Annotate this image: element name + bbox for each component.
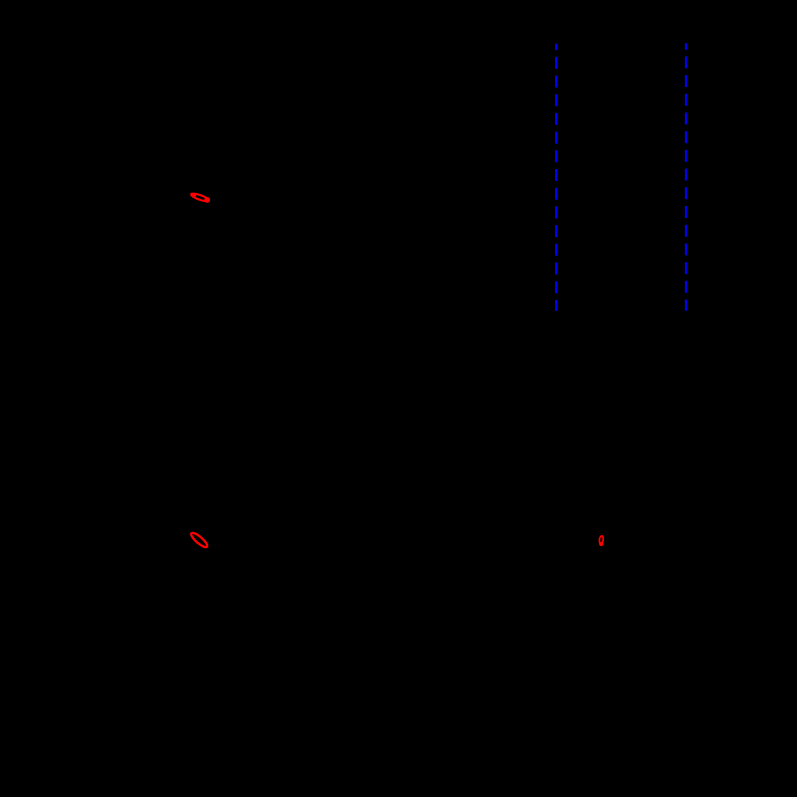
boundary dashed line (blue, right of transmission-line section) xyxy=(685,43,687,311)
boundary dashed line (blue, left of transmission-line section) xyxy=(555,44,557,311)
red highlight ellipse E2 (lower-left wire) xyxy=(189,531,209,549)
red highlight ellipse E3 (lower-middle wire) xyxy=(599,536,604,547)
red highlight ellipse E1 (upper-left wire) xyxy=(190,192,210,203)
